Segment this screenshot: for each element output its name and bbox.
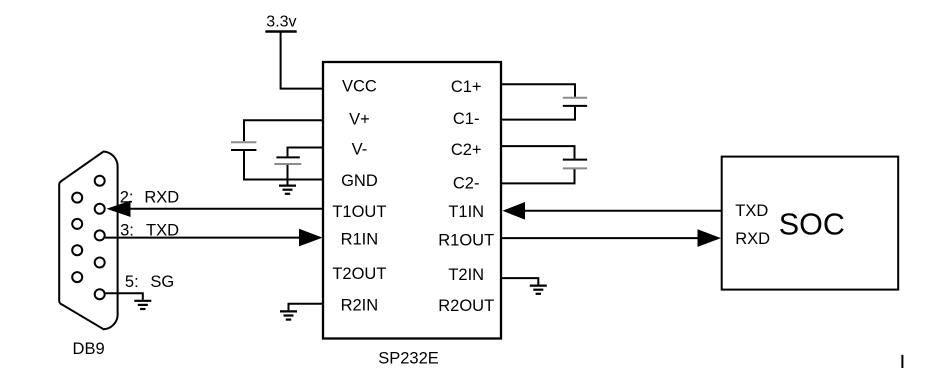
svg-text:2:: 2: [120, 189, 134, 207]
svg-text:T1IN: T1IN [448, 203, 484, 221]
svg-text:VCC: VCC [342, 77, 377, 95]
svg-text:C1-: C1- [453, 110, 480, 128]
svg-text:5:: 5: [125, 273, 139, 291]
svg-text:GND: GND [341, 172, 378, 190]
svg-text:SP232E: SP232E [378, 350, 439, 368]
svg-text:T2OUT: T2OUT [332, 265, 386, 283]
svg-text:R2OUT: R2OUT [438, 297, 494, 315]
svg-text:R1OUT: R1OUT [438, 232, 494, 250]
svg-text:RXD: RXD [735, 230, 770, 248]
svg-text:TXD: TXD [735, 202, 768, 220]
svg-text:R2IN: R2IN [341, 296, 379, 314]
svg-text:3:: 3: [120, 222, 134, 240]
svg-text:RXD: RXD [144, 189, 179, 207]
svg-text:T1OUT: T1OUT [332, 203, 386, 221]
svg-text:V-: V- [352, 141, 368, 159]
svg-text:C2-: C2- [453, 175, 480, 193]
svg-text:T2IN: T2IN [448, 266, 484, 284]
svg-text:R1IN: R1IN [341, 230, 379, 248]
svg-text:3.3v: 3.3v [266, 13, 296, 30]
svg-text:SG: SG [150, 273, 174, 291]
svg-text:C1+: C1+ [451, 78, 482, 96]
svg-text:C2+: C2+ [451, 141, 482, 159]
svg-text:DB9: DB9 [73, 340, 105, 358]
svg-text:TXD: TXD [146, 222, 179, 240]
svg-text:V+: V+ [349, 110, 370, 128]
svg-text:SOC: SOC [779, 208, 845, 242]
